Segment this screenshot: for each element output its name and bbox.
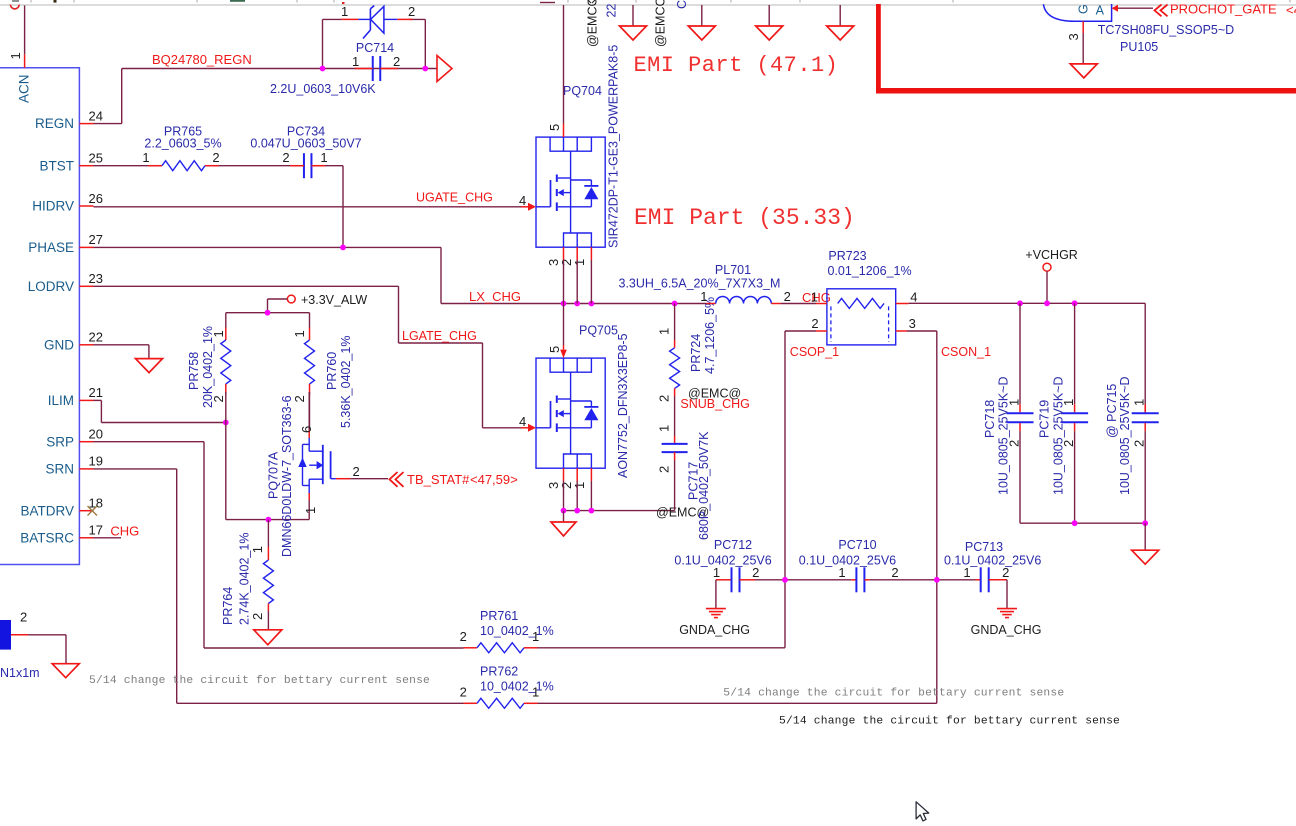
svg-text:3: 3 (1066, 33, 1081, 40)
svg-text:2: 2 (784, 289, 791, 304)
svg-text:2.2U_0603_10V6K: 2.2U_0603_10V6K (270, 82, 376, 96)
ground symbol PU105 (1070, 64, 1097, 78)
wire net CSON_1 (907, 331, 937, 703)
svg-text:1: 1 (341, 4, 348, 19)
IC pin 19 SRN (45, 454, 102, 477)
svg-text:LODRV: LODRV (28, 279, 74, 294)
svg-text:PR761: PR761 (480, 609, 518, 623)
svg-text:0.01_1206_1%: 0.01_1206_1% (828, 264, 912, 278)
svg-text:1: 1 (1006, 399, 1021, 406)
toolbar edge fragments (0, 0, 1296, 9)
svg-text:2: 2 (393, 54, 400, 69)
svg-text:4: 4 (519, 414, 526, 429)
resistor PR764 2.74K_0402_1% (221, 520, 273, 631)
IC pin 27 PHASE (28, 232, 103, 255)
ground symbol below PR764 (254, 630, 282, 645)
svg-text:1: 1 (352, 54, 359, 69)
svg-text:1: 1 (1061, 399, 1076, 406)
svg-text:2: 2 (211, 395, 226, 402)
svg-text:25: 25 (89, 151, 103, 166)
ground symbol below PQ705 (551, 511, 576, 536)
svg-text:DMN66D0LDW-7_SOT363-6: DMN66D0LDW-7_SOT363-6 (280, 395, 294, 557)
capacitor PC714 2.2U_0603_10V6K (270, 41, 400, 96)
svg-text:1: 1 (713, 565, 720, 580)
svg-text:2: 2 (460, 629, 467, 644)
svg-text:PU105: PU105 (1120, 40, 1158, 54)
wire net CSOP_1 (785, 331, 816, 648)
junction dots PQ705 sources (561, 508, 595, 514)
svg-text:PR764: PR764 (221, 587, 235, 625)
inductor PL701 3.3UH_6.5A_20%_7X7X3_M (619, 263, 791, 304)
wire GND pin 22 (94, 345, 149, 359)
capacitor PC717 680P_0402_50V7K (657, 396, 712, 540)
svg-text:1: 1 (963, 565, 970, 580)
svg-text:<4: <4 (1286, 3, 1296, 18)
wire PR762 to CSON_1 vertical (538, 702, 937, 704)
svg-text:2: 2 (292, 395, 307, 402)
vertical label @EMCO (2) (654, 0, 668, 47)
wire divider bottom rail (226, 423, 309, 520)
capacitor PC719 10U_0805_25V5K~D (1038, 303, 1089, 523)
svg-text:2: 2 (1132, 440, 1147, 447)
svg-text:BATDRV: BATDRV (20, 503, 74, 518)
svg-text:10_0402_1%: 10_0402_1% (480, 680, 554, 694)
junction dot ILIM divider (223, 420, 229, 426)
capacitor PC718 10U_0805_25V5K~D (983, 303, 1034, 523)
svg-text:5.36K_0402_1%: 5.36K_0402_1% (339, 336, 353, 428)
net label TB_STAT# <47,59> with chevrons (390, 472, 518, 487)
net label PROCHOT_GATE with output arrow (1112, 2, 1296, 18)
wire PQ704 pin5 to top edge (563, 5, 565, 124)
AND gate PU105 TC7SH08FU_SSOP5~D (clipped top) (1043, 4, 1234, 55)
svg-text:GNDA_CHG: GNDA_CHG (971, 623, 1042, 637)
net label BQ24780_REGN (152, 52, 252, 67)
junction dots bottom rail (1072, 520, 1148, 526)
transistor PQ704 SIR472DP-T1-GE3_POWERPAK8-5 (519, 45, 621, 266)
wire divider top rail (226, 312, 310, 314)
resistor PR724 4.7_1206_5% (657, 297, 718, 402)
label @EMC@ near PGND rail (656, 506, 709, 520)
resistor PR762 10_0402_1% (460, 665, 554, 709)
svg-text:2: 2 (891, 565, 898, 580)
svg-text:2: 2 (212, 150, 219, 165)
svg-text:22: 22 (605, 4, 619, 18)
svg-text:PC712: PC712 (714, 538, 752, 552)
svg-text:24: 24 (89, 108, 103, 123)
earth ground GNDA_CHG (left) (679, 609, 750, 637)
svg-text:5: 5 (547, 346, 562, 353)
svg-text:2: 2 (657, 466, 672, 473)
net label CHG (802, 290, 831, 305)
note 5/14 line 2 (723, 688, 1064, 700)
svg-text:2: 2 (1061, 440, 1076, 447)
wire net CHG (inductor to PR723) (781, 303, 816, 305)
svg-text:SRP: SRP (46, 434, 74, 449)
svg-text:3: 3 (909, 316, 916, 331)
net label CSOP_1 (790, 345, 839, 359)
wire net SRN (CSON sense) (94, 469, 464, 703)
svg-text:5/14 change the circuit for b: 5/14 change the circuit for bettary curr… (89, 675, 430, 687)
svg-text:PC714: PC714 (356, 41, 394, 55)
svg-text:1: 1 (572, 259, 587, 266)
IC pin name ACN (vertical) (17, 74, 32, 103)
svg-text:1: 1 (211, 330, 226, 337)
wire net BTST (94, 166, 344, 248)
svg-text:PR724: PR724 (689, 334, 703, 372)
svg-text:BTST: BTST (39, 158, 74, 173)
svg-text:EMI Part (47.1): EMI Part (47.1) (634, 53, 839, 78)
net label @EMC@ SNUB_CHG (680, 387, 749, 412)
wire net PHASE / LX_CHG (94, 247, 707, 303)
svg-text:N1x1m: N1x1m (0, 666, 40, 680)
IC pin 18 BATDRV (20, 496, 102, 519)
IC pin 24 REGN (35, 108, 103, 131)
resistor PR765 2.2_0603_5% (142, 125, 221, 171)
annotation EMI Part (47.1) (634, 53, 839, 78)
net label LX_CHG (469, 289, 521, 304)
svg-text:PC719: PC719 (1038, 400, 1052, 438)
IC pin 17 BATSRC (20, 523, 103, 546)
resistor PR760 5.36K_0402_1% (292, 313, 353, 430)
svg-text:LGATE_CHG: LGATE_CHG (402, 329, 477, 343)
ground symbol EMI 2 (688, 5, 715, 40)
wires PQ704 pins 3,2,1 to LX rail (564, 260, 592, 304)
svg-text:1: 1 (657, 328, 672, 335)
ground symbol (GND pin) (136, 359, 163, 373)
svg-text:10U_0805_25V5K~D: 10U_0805_25V5K~D (1118, 377, 1132, 496)
resistor PR758 20K_0402_1% (187, 313, 231, 423)
svg-text:17: 17 (89, 523, 103, 538)
svg-text:CSON_1: CSON_1 (941, 345, 991, 359)
svg-text:1: 1 (838, 565, 845, 580)
svg-text:SIR472DP-T1-GE3_POWERPAK8-5: SIR472DP-T1-GE3_POWERPAK8-5 (607, 45, 621, 248)
svg-text:0.047U_0603_50V7: 0.047U_0603_50V7 (250, 137, 361, 151)
svg-text:BQ24780_REGN: BQ24780_REGN (152, 52, 252, 67)
svg-text:2: 2 (250, 613, 265, 620)
svg-text:PQ704: PQ704 (563, 84, 602, 98)
capacitor PC712 0.1U_0402_25V6 (674, 538, 771, 609)
junction dots on LX_CHG rail (561, 301, 678, 307)
svg-text:5/14 change the circuit for b: 5/14 change the circuit for bettary curr… (723, 688, 1064, 700)
wire net TB_STAT# (350, 478, 388, 480)
net label CSON_1 (941, 345, 991, 359)
svg-text:1: 1 (657, 425, 672, 432)
blue fragment C (675, 0, 689, 9)
wire PC710 to PC713 (870, 579, 976, 581)
svg-text:SNUB_CHG: SNUB_CHG (680, 397, 749, 411)
svg-text:4.7_1206_5%: 4.7_1206_5% (703, 297, 717, 374)
ground symbol EMI 1 (620, 5, 647, 40)
capacitor PC734 0.047U_0603_50V7 (250, 125, 361, 179)
net label LGATE_CHG (402, 329, 477, 343)
svg-text:UGATE_CHG: UGATE_CHG (416, 191, 493, 205)
svg-text:@ PC715: @ PC715 (1105, 384, 1119, 438)
zener diode D700 (top, pins 1-2) (341, 4, 415, 39)
mouse cursor (916, 802, 929, 821)
svg-text:HIDRV: HIDRV (32, 199, 74, 214)
ground symbol VCHGR caps (1132, 523, 1159, 564)
svg-text:21: 21 (89, 385, 103, 400)
earth ground GNDA_CHG (right) (971, 609, 1042, 637)
IC pin 22 GND (44, 330, 103, 353)
svg-text:1: 1 (8, 52, 23, 59)
svg-text:6: 6 (299, 426, 314, 433)
svg-text:2: 2 (353, 464, 360, 479)
IC pin 1 ACN stub + wire from top (8, 6, 25, 68)
net label UGATE_CHG (416, 191, 493, 205)
vertical label @EMCO (1) (586, 0, 600, 47)
svg-text:1: 1 (700, 289, 707, 304)
svg-text:5/14 change the circuit for b: 5/14 change the circuit for bettary curr… (779, 716, 1120, 728)
svg-text:2: 2 (20, 610, 27, 625)
svg-text:27: 27 (89, 232, 103, 247)
svg-text:PR762: PR762 (480, 665, 518, 679)
svg-text:2: 2 (1006, 440, 1021, 447)
ground symbol EMI 4 (827, 5, 854, 40)
svg-text:20: 20 (89, 427, 103, 442)
junction dot +3.3V tap (265, 310, 271, 316)
svg-text:1: 1 (142, 150, 149, 165)
svg-text:10_0402_1%: 10_0402_1% (480, 624, 554, 638)
svg-text:2: 2 (460, 685, 467, 700)
resistor PR723 0.01_1206_1% 4-terminal sense (811, 249, 918, 345)
no-connect X on BATDRV (88, 506, 98, 516)
svg-text:BATSRC: BATSRC (20, 530, 74, 545)
capacitor PC713 0.1U_0402_25V6 (944, 540, 1041, 609)
svg-text:4: 4 (519, 193, 526, 208)
IC U700 BQ24780 charge controller (partial, clipped left) (0, 68, 79, 565)
svg-text:PQ705: PQ705 (579, 324, 618, 338)
svg-text:PC713: PC713 (965, 540, 1003, 554)
svg-text:<47,59>: <47,59> (470, 472, 518, 487)
svg-text:1: 1 (1132, 399, 1147, 406)
svg-text:+3.3V_ALW: +3.3V_ALW (301, 293, 367, 307)
transistor PQ705 AON7752_DFN3X3EP8-5 (519, 324, 630, 490)
IC pin 21 ILIM (48, 385, 103, 408)
svg-text:26: 26 (89, 191, 103, 206)
svg-text:PR758: PR758 (187, 352, 201, 390)
junction dot CSOP/caps (782, 577, 788, 583)
svg-text:2: 2 (1002, 565, 1009, 580)
note 5/14 line 3 (779, 716, 1120, 728)
svg-text:22: 22 (89, 330, 103, 345)
junction dot CSON/caps (934, 577, 940, 583)
capacitor PC710 0.1U_0402_25V6 (799, 538, 899, 592)
svg-text:1: 1 (532, 685, 539, 700)
svg-text:2.2_0603_5%: 2.2_0603_5% (144, 137, 221, 151)
svg-text:AON7752_DFN3X3EP8-5: AON7752_DFN3X3EP8-5 (616, 333, 630, 478)
ground symbol EMI 3 (756, 5, 783, 40)
svg-text:4: 4 (910, 290, 917, 305)
power symbol +3.3V_ALW (268, 293, 368, 313)
wire net UGATE_CHG (94, 206, 529, 208)
svg-text:0.1U_0402_25V6: 0.1U_0402_25V6 (799, 554, 896, 568)
wire net VCHGR rail (909, 303, 1146, 412)
svg-text:REGN: REGN (35, 116, 74, 131)
svg-text:PROCHOT_GATE: PROCHOT_GATE (1170, 2, 1277, 17)
svg-text:LX_CHG: LX_CHG (469, 289, 521, 304)
junction dot PR764 tap (266, 517, 272, 523)
svg-text:SRN: SRN (45, 462, 74, 477)
svg-text:TC7SH08FU_SSOP5~D: TC7SH08FU_SSOP5~D (1098, 23, 1235, 37)
note 5/14 line 1 (89, 675, 430, 687)
svg-text:0.1U_0402_25V6: 0.1U_0402_25V6 (944, 554, 1041, 568)
wire net BQ24780_REGN (94, 19, 438, 123)
svg-text:PC718: PC718 (983, 400, 997, 438)
svg-text:1: 1 (572, 482, 587, 489)
svg-text:PHASE: PHASE (28, 240, 74, 255)
transistor PQ707A DMN66D0LDW-7_SOT363-6 (267, 392, 360, 557)
svg-text:PR723: PR723 (828, 249, 866, 263)
svg-text:CHG: CHG (110, 524, 139, 539)
svg-text:2: 2 (657, 395, 672, 402)
off-page connector arrow (REGN) (437, 56, 452, 82)
IC pin 26 HIDRV (32, 191, 103, 214)
svg-text:2: 2 (408, 4, 415, 19)
junction dots on REGN net (320, 66, 429, 72)
svg-text:PR760: PR760 (325, 352, 339, 390)
wire PQ705 pin5 from LX rail (563, 304, 565, 346)
wire PR761 to CSOP_1 vertical (538, 647, 786, 649)
wire VCHGR caps bottom rail (1020, 522, 1145, 524)
svg-text:G: G (1077, 4, 1091, 14)
svg-text:2: 2 (282, 150, 289, 165)
svg-text:1: 1 (250, 546, 265, 553)
svg-text:@EMCO: @EMCO (654, 0, 668, 47)
svg-text:1: 1 (292, 330, 307, 337)
svg-text:C: C (675, 0, 689, 9)
svg-text:EMI Part (35.33): EMI Part (35.33) (634, 205, 855, 231)
svg-text:CSOP_1: CSOP_1 (790, 345, 839, 359)
wire BATSRC / net label CHG (94, 524, 140, 539)
svg-text:PQ707A: PQ707A (267, 451, 281, 499)
IC pin 23 LODRV (28, 271, 103, 294)
svg-text:TB_STAT#: TB_STAT# (407, 472, 470, 487)
vertical label 22 (605, 4, 619, 18)
svg-text:19: 19 (89, 454, 103, 469)
ground symbol CON1x1m (52, 664, 79, 678)
wire CSOP_1 to PC710 (755, 579, 851, 581)
svg-text:GND: GND (44, 337, 74, 352)
svg-text:680P_0402_50V7K: 680P_0402_50V7K (697, 431, 711, 540)
IC pin 20 SRP (46, 427, 103, 450)
wire net ILIM (94, 400, 226, 422)
junction dots VCHGR rail (1017, 300, 1077, 306)
svg-text:1: 1 (303, 507, 318, 514)
svg-text:1: 1 (532, 629, 539, 644)
svg-text:10U_0805_25V5K~D: 10U_0805_25V5K~D (1052, 377, 1066, 496)
wire CON to ground (28, 635, 66, 664)
wire net LGATE_CHG (94, 286, 529, 428)
connector CON1x1m (blue block) (0, 610, 40, 681)
svg-text:PL701: PL701 (715, 263, 751, 277)
svg-text:PC710: PC710 (838, 538, 876, 552)
red highlight frame corner (876, 4, 1296, 94)
wires PQ705 pins 3,2,1 to PGND rail (564, 481, 675, 511)
svg-text:10U_0805_25V5K~D: 10U_0805_25V5K~D (997, 377, 1011, 496)
svg-text:GNDA_CHG: GNDA_CHG (679, 623, 750, 637)
svg-text:ILIM: ILIM (48, 393, 74, 408)
svg-text:2: 2 (752, 565, 759, 580)
svg-text:1: 1 (811, 290, 818, 305)
junction dot PHASE/BTST (340, 245, 346, 251)
svg-text:ACN: ACN (17, 74, 32, 103)
IC pin 25 BTST (39, 151, 102, 174)
resistor PR761 10_0402_1% (460, 609, 554, 653)
wire net SRP (CSOP sense) (94, 442, 464, 648)
svg-text:2: 2 (811, 316, 818, 331)
power symbol +VCHGR (1025, 248, 1077, 303)
annotation EMI Part (35.33) (634, 205, 855, 231)
capacitor @ PC715 10U_0805_25V5K~D (1105, 377, 1159, 524)
svg-text:1: 1 (320, 150, 327, 165)
svg-text:A: A (1096, 4, 1105, 18)
wire PU105 pin3 to ground (1082, 33, 1084, 64)
svg-text:5: 5 (547, 124, 562, 131)
svg-text:+VCHGR: +VCHGR (1025, 248, 1077, 262)
svg-text:@EMCO: @EMCO (586, 0, 600, 47)
svg-text:23: 23 (89, 271, 103, 286)
